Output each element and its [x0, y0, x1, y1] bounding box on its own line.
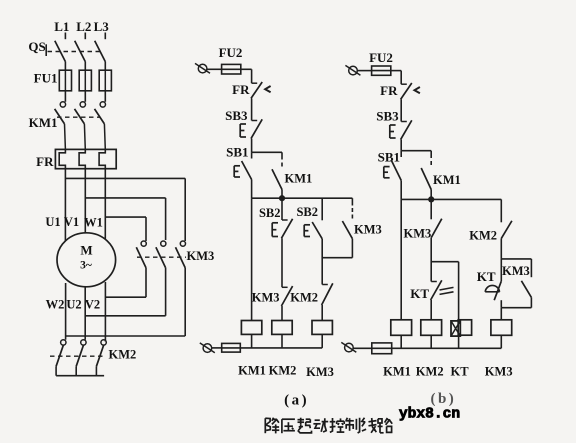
svg-text:QS: QS: [28, 39, 45, 54]
svg-text:KM1: KM1: [29, 115, 58, 130]
svg-text:KM2: KM2: [469, 229, 497, 243]
svg-text:(a): (a): [284, 393, 309, 409]
svg-text:SB1: SB1: [378, 150, 400, 165]
svg-text:FR: FR: [380, 83, 398, 98]
svg-text:SB2: SB2: [296, 205, 318, 219]
svg-text:W1: W1: [84, 216, 103, 230]
svg-text:FU2: FU2: [369, 50, 393, 65]
svg-text:KM1: KM1: [238, 364, 266, 378]
svg-text:KM3: KM3: [306, 365, 334, 379]
svg-text:KM1: KM1: [285, 172, 313, 186]
svg-text:KM2: KM2: [109, 348, 137, 362]
svg-text:KT: KT: [450, 365, 469, 379]
svg-text:V1: V1: [64, 215, 79, 229]
svg-text:KM2: KM2: [416, 365, 444, 379]
svg-text:3~: 3~: [80, 260, 92, 272]
svg-text:KM3: KM3: [485, 365, 513, 379]
svg-text:W2: W2: [46, 298, 65, 312]
svg-text:(b): (b): [430, 391, 456, 407]
svg-text:U1: U1: [45, 215, 60, 229]
svg-text:FR: FR: [232, 82, 250, 97]
svg-text:SB3: SB3: [225, 108, 248, 123]
svg-text:KT: KT: [477, 269, 496, 284]
svg-text:L2: L2: [76, 19, 91, 34]
svg-text:KM1: KM1: [433, 173, 461, 187]
svg-text:V2: V2: [85, 298, 100, 312]
svg-text:FR: FR: [36, 154, 54, 169]
svg-text:KM2: KM2: [290, 291, 318, 305]
svg-text:FU2: FU2: [219, 45, 243, 60]
svg-text:U2: U2: [66, 298, 81, 312]
svg-text:SB2: SB2: [259, 206, 281, 220]
svg-text:ybx8.cn: ybx8.cn: [399, 407, 460, 423]
svg-text:KM3: KM3: [354, 223, 382, 237]
svg-text:M: M: [80, 243, 92, 258]
svg-text:KM3: KM3: [252, 291, 280, 305]
svg-text:KM3: KM3: [404, 227, 432, 241]
svg-text:SB3: SB3: [376, 109, 399, 124]
svg-text:KM3: KM3: [502, 264, 530, 278]
svg-text:KM1: KM1: [383, 365, 411, 379]
svg-text:FU1: FU1: [34, 71, 58, 86]
svg-text:L1: L1: [54, 19, 69, 34]
svg-text:L3: L3: [94, 19, 110, 34]
svg-text:KM3: KM3: [187, 249, 215, 263]
svg-text:KT: KT: [410, 286, 429, 301]
svg-text:KM2: KM2: [269, 364, 297, 378]
svg-text:SB1: SB1: [226, 145, 248, 160]
